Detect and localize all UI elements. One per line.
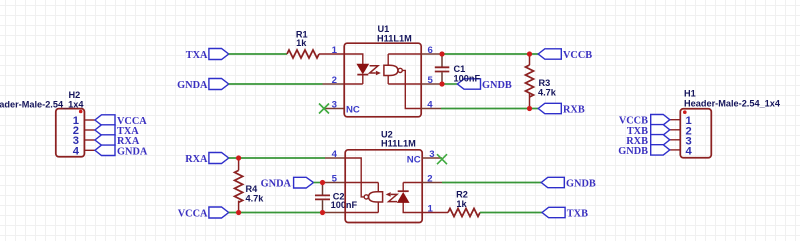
svg-text:NC: NC bbox=[407, 155, 421, 166]
resistor R3 bottom lead bbox=[529, 93, 531, 109]
header H1 pin 2 stub bbox=[670, 129, 681, 131]
junction node VCCB/R3 bbox=[527, 51, 532, 56]
resistor R4 top lead bbox=[238, 158, 240, 170]
svg-text:GNDB: GNDB bbox=[482, 80, 512, 91]
port GNDB flag (top) bbox=[457, 79, 480, 89]
capacitor C1 top lead bbox=[441, 54, 443, 67]
header H2 pin1 marker dot bbox=[79, 110, 83, 114]
wire GNDB net pin5 to flag bbox=[442, 83, 457, 85]
port TXB flag bbox=[542, 207, 565, 217]
U1 gate bottom wire to pin 5 bbox=[388, 76, 421, 85]
no-connect X on U1 pin 3 bbox=[319, 104, 329, 114]
header H2 pin 3 stub bbox=[84, 139, 95, 141]
U1 LED cathode bar bbox=[357, 74, 368, 76]
svg-text:H11L1M: H11L1M bbox=[381, 139, 416, 149]
header H1 body box bbox=[680, 109, 711, 158]
U2 pin 6 stub bbox=[325, 212, 345, 214]
svg-text:1k: 1k bbox=[456, 199, 467, 209]
svg-text:GNDA: GNDA bbox=[261, 179, 292, 190]
port VCCB flag at H1 pin1 bbox=[651, 115, 670, 125]
wire RXA to U2 pin 4 bbox=[229, 157, 325, 159]
capacitor C2 plates bbox=[315, 195, 330, 199]
svg-text:R3: R3 bbox=[539, 78, 551, 88]
resistor R2 zigzag bbox=[448, 209, 480, 217]
junction node RXB/R3 bbox=[527, 106, 532, 111]
U1 light arrow head bbox=[376, 71, 381, 76]
port RXB flag at H1 pin3 bbox=[651, 135, 670, 145]
svg-text:4: 4 bbox=[73, 145, 80, 157]
U1 gate output bubble bbox=[398, 68, 402, 72]
header H1 pin 3 stub bbox=[670, 139, 681, 141]
port GNDA flag at H2 pin4 bbox=[95, 145, 115, 155]
U2 gate output wire to pin 4 bbox=[345, 158, 364, 197]
header H1 pin 1 stub bbox=[670, 119, 681, 121]
svg-text:100nF: 100nF bbox=[454, 73, 481, 83]
svg-text:H2: H2 bbox=[69, 90, 81, 100]
header H2 pin 2 stub bbox=[84, 129, 95, 131]
header H1 pin1 marker dot bbox=[683, 110, 687, 114]
svg-text:4.7k: 4.7k bbox=[246, 193, 265, 203]
resistor R3 zigzag bbox=[526, 65, 534, 97]
wire TXB net R2 to flag bbox=[480, 212, 542, 214]
svg-text:5: 5 bbox=[332, 174, 338, 185]
no-connect X on U2 pin 3 bbox=[437, 154, 447, 164]
port RXA flag bbox=[209, 153, 229, 164]
svg-text:1: 1 bbox=[332, 45, 338, 56]
U2 internal wire pin2 bbox=[403, 182, 422, 184]
svg-text:4: 4 bbox=[686, 145, 693, 157]
U1 pin 6 stub bbox=[421, 53, 442, 55]
svg-text:U1: U1 bbox=[378, 24, 390, 34]
svg-text:Header-Male-2.54_1x4: Header-Male-2.54_1x4 bbox=[0, 100, 84, 110]
wire GNDA to U1 pin 2 bbox=[229, 83, 323, 85]
U1 pin 4 stub bbox=[421, 108, 441, 110]
port VCCA flag at H2 pin1 bbox=[95, 115, 115, 125]
junction node GNDA/C2 bbox=[320, 180, 325, 185]
U2 pin 2 stub bbox=[422, 182, 442, 184]
U1 gate output wire to pin 4 bbox=[402, 70, 421, 108]
op-amp U1 body box bbox=[344, 43, 421, 117]
svg-text:NC: NC bbox=[346, 105, 360, 116]
U1 pin 3 stub (NC) bbox=[324, 108, 344, 110]
U1 light arrows Z bbox=[370, 66, 378, 73]
svg-text:VCCB: VCCB bbox=[563, 50, 592, 61]
U2 light arrows Z bbox=[389, 194, 397, 201]
wire RXB net pin4 to flag bbox=[441, 108, 538, 110]
junction node pin6/C1 bbox=[439, 51, 444, 56]
junction node pin5/C1 bbox=[439, 81, 444, 86]
U2 pin 4 stub bbox=[325, 157, 345, 159]
svg-text:TXB: TXB bbox=[567, 209, 588, 220]
U1 pin 2 stub bbox=[323, 83, 345, 85]
svg-text:GNDA: GNDA bbox=[177, 80, 208, 91]
U1 gate top supply wire to pin 6 bbox=[388, 54, 421, 65]
resistor R1 right lead to U1 pin 1 bbox=[319, 53, 344, 55]
port GNDB flag (bottom) bbox=[541, 177, 564, 187]
resistor R4 bottom lead bbox=[238, 201, 240, 213]
svg-text:1k: 1k bbox=[296, 38, 307, 48]
wire VCCA to U2 pin 6 bbox=[229, 212, 325, 214]
resistor R4 zigzag bbox=[235, 170, 243, 202]
port VCCB flag bbox=[538, 49, 561, 59]
U2 internal wire pin1 to LED anode bbox=[403, 202, 422, 212]
svg-text:GNDA: GNDA bbox=[117, 146, 148, 157]
wire VCCB net pin6 to flag bbox=[442, 53, 538, 55]
port GNDB flag at H1 pin4 bbox=[651, 145, 670, 155]
svg-text:H1: H1 bbox=[684, 89, 696, 99]
U2 gate bottom supply wire to pin 6 bbox=[345, 202, 378, 213]
capacitor C1 bottom lead bbox=[441, 72, 443, 84]
header H2 body box bbox=[56, 109, 85, 157]
resistor R3 top lead bbox=[529, 54, 531, 65]
U1 internal wire pin1 to LED anode bbox=[344, 54, 363, 64]
svg-text:VCCA: VCCA bbox=[178, 209, 208, 220]
U2 light arrow head bbox=[386, 192, 391, 197]
port TXA flag bbox=[209, 49, 229, 60]
U1 gate body bbox=[384, 65, 398, 75]
svg-text:R2: R2 bbox=[456, 190, 468, 200]
U2 LED cathode bar bbox=[398, 190, 409, 192]
port VCCA flag bbox=[209, 207, 229, 218]
U1 internal wire pin2 bbox=[344, 83, 363, 85]
U1 LED cathode lead to pin2 wire bbox=[362, 75, 364, 84]
port GNDA flag (top) bbox=[209, 79, 229, 90]
svg-text:GNDB: GNDB bbox=[566, 179, 596, 190]
svg-text:Header-Male-2.54_1x4: Header-Male-2.54_1x4 bbox=[684, 99, 781, 109]
svg-text:100nF: 100nF bbox=[331, 200, 358, 210]
header H2 pin 4 stub bbox=[84, 149, 95, 151]
capacitor C2 top lead bbox=[322, 183, 324, 195]
junction node VCCA/R4 bbox=[236, 210, 241, 215]
junction node RXA/R4 bbox=[236, 155, 241, 160]
junction node VCCA/C2 bbox=[320, 210, 325, 215]
port RXA flag at H2 pin3 bbox=[95, 135, 115, 145]
resistor R1 bbox=[287, 50, 319, 58]
svg-text:RXA: RXA bbox=[185, 154, 208, 165]
U2 LED cathode lead to pin2 wire bbox=[402, 183, 404, 192]
svg-text:TXA: TXA bbox=[186, 50, 208, 61]
svg-text:GNDB: GNDB bbox=[618, 146, 648, 157]
U1 LED triangle bbox=[357, 64, 368, 73]
op-amp U2 body box bbox=[345, 150, 422, 223]
U2 gate output bubble bbox=[364, 195, 368, 199]
port GNDA flag (bottom) bbox=[294, 177, 314, 188]
svg-text:RXB: RXB bbox=[563, 105, 585, 116]
capacitor C1 plates bbox=[435, 67, 450, 71]
svg-text:2: 2 bbox=[332, 75, 337, 86]
port TXB flag at H1 pin2 bbox=[651, 125, 670, 135]
U2 pin 1 stub / R2 left lead bbox=[422, 212, 448, 214]
U1 pin 5 stub bbox=[421, 83, 442, 85]
svg-text:H11L1M: H11L1M bbox=[377, 34, 412, 44]
U2 pin 5 stub bbox=[325, 182, 345, 184]
wire TXA to R1 bbox=[229, 53, 287, 55]
port TXA flag at H2 pin2 bbox=[95, 125, 115, 135]
U2 LED triangle bbox=[398, 193, 409, 202]
header H2 pin 1 stub bbox=[84, 119, 95, 121]
svg-text:3: 3 bbox=[332, 100, 337, 111]
svg-text:4.7k: 4.7k bbox=[538, 88, 557, 98]
U2 pin 3 stub bbox=[422, 157, 442, 159]
capacitor C2 bottom lead bbox=[322, 200, 324, 212]
wire GNDB net pin2 to flag bbox=[442, 182, 541, 184]
wire GNDA to U2 pin 5 bbox=[314, 182, 326, 184]
svg-text:4: 4 bbox=[332, 149, 338, 160]
header H1 pin 4 stub bbox=[670, 149, 681, 151]
U2 gate body bbox=[369, 192, 383, 202]
U2 gate top wire to pin 5 bbox=[345, 183, 378, 192]
port RXB flag bbox=[538, 103, 561, 113]
